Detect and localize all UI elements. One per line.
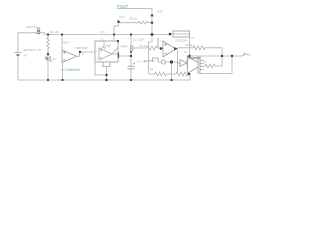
wire K1 down branch <box>189 34 191 56</box>
svg-text:R5 1k: R5 1k <box>185 43 193 47</box>
relay K1 box <box>173 31 190 37</box>
wire mic to rail <box>47 60 49 80</box>
wire aux vertical <box>153 38 159 63</box>
comparator block A1 inner triangle <box>99 48 112 60</box>
VCC arrow 1 head <box>117 20 121 23</box>
svg-text:LED1 5V: LED1 5V <box>26 25 37 29</box>
block A1 offset squiggle <box>101 45 111 50</box>
wire top rail <box>45 34 171 36</box>
svg-text:VDD: VDD <box>157 10 164 14</box>
svg-text:POUT: POUT <box>117 4 129 9</box>
wire common tick <box>61 69 65 71</box>
block A1 pin stub top <box>103 41 105 47</box>
svg-text:9V: 9V <box>24 54 28 58</box>
resistor R7 horizontal <box>204 64 216 68</box>
wire speaker top stub <box>188 55 190 58</box>
resistor R4 horizontal <box>149 72 177 76</box>
svg-text:VCC: VCC <box>119 15 126 19</box>
diode D1 <box>178 60 188 67</box>
svg-text:SPK1: SPK1 <box>243 53 251 57</box>
wire C1 vertical top <box>130 35 132 67</box>
op-amp U1 <box>62 50 77 63</box>
block A1 right pin bar <box>117 53 119 59</box>
wire opamp1 output <box>77 52 96 56</box>
op-amp U2 apex blob <box>174 47 178 50</box>
lamp X1 circles on rail <box>37 28 40 34</box>
battery V1 <box>15 53 22 56</box>
svg-text:MIC1: MIC1 <box>63 41 70 45</box>
svg-text:R3 1k: R3 1k <box>140 44 148 48</box>
resistor R3 horizontal <box>147 46 163 50</box>
op-amp U1 input marks <box>63 51 65 60</box>
op-amp U2 input marks <box>165 43 168 53</box>
VCC arrow 2 head <box>150 13 154 16</box>
wire opamp1 bottom to rail <box>62 63 64 81</box>
wire battery branch top <box>17 33 19 52</box>
capacitor C2 series plates <box>131 45 133 51</box>
wire opamp2 output <box>176 48 193 49</box>
wire K1 through <box>170 33 190 35</box>
wire C2 to R3 <box>133 47 147 49</box>
text labels gray <box>24 10 208 72</box>
wire bottom chain <box>149 42 153 74</box>
wire block A1 output <box>118 55 131 57</box>
wire POUT net <box>117 9 152 14</box>
speaker top bar <box>188 57 201 59</box>
svg-text:VCC: VCC <box>100 30 106 34</box>
wire bottom rail <box>18 74 190 80</box>
wire node to junction <box>158 61 178 63</box>
wire junction to rail <box>171 62 173 80</box>
resistor R8 horizontal <box>176 72 190 76</box>
wire opamp1 top input <box>61 35 63 51</box>
wire R7 branch <box>215 56 222 66</box>
block A1 bottom tab <box>103 62 110 67</box>
wire cap C3 branch <box>153 38 159 63</box>
resistor R1 vertical <box>47 35 50 54</box>
svg-text:COMMON: COMMON <box>65 68 81 72</box>
microphone MIC1 <box>46 56 51 61</box>
comparator block A1 box <box>95 41 118 62</box>
svg-text:NE555N: NE555N <box>144 59 155 63</box>
block A1 input marks <box>100 49 102 58</box>
svg-text:BATTERY_9V: BATTERY_9V <box>24 48 42 52</box>
capacitor C3 circle <box>161 60 165 64</box>
svg-text:VREF: VREF <box>120 45 128 49</box>
VCC arrow 2 stem <box>151 17 153 43</box>
wire block A1 left leg <box>95 62 107 75</box>
svg-text:R1 10k: R1 10k <box>50 30 60 34</box>
capacitor C1 plus mark <box>133 63 135 65</box>
svg-text:R6 1k: R6 1k <box>130 17 138 21</box>
VCC arrow 1 stem <box>114 23 119 35</box>
resistor R6 horizontal <box>138 21 152 24</box>
resistor R5 horizontal <box>193 46 222 50</box>
text labels teal <box>61 4 251 72</box>
wire speaker bottom net <box>199 56 232 74</box>
junction dots <box>47 22 233 82</box>
wire block A1 vcc pin <box>113 35 115 42</box>
wire VCC1 to R6 <box>119 22 139 24</box>
speaker LS1 cone <box>188 57 204 75</box>
wire emitter branch <box>177 50 179 74</box>
svg-text:9V: 9V <box>53 57 57 61</box>
wire C1 to rail <box>130 69 132 80</box>
wire block A1 gnd stem <box>106 67 108 81</box>
svg-text:C2 10uF: C2 10uF <box>133 38 144 42</box>
capacitor C1 plates <box>128 66 135 69</box>
wire lamp branch <box>18 33 45 35</box>
wire battery branch bottom <box>17 56 19 80</box>
svg-text:TL071CD: TL071CD <box>75 46 88 50</box>
wire R5 to speaker node <box>221 48 223 56</box>
block A1 apex wire <box>112 48 118 55</box>
op-amp U2 <box>163 41 176 57</box>
wire speaker top net <box>186 53 245 56</box>
